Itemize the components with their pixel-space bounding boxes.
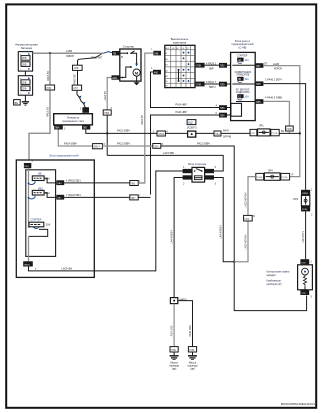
wire PA45 to fuse LR2 bbox=[263, 79, 305, 190]
svg-text:РА63 5ВГ: РА63 5ВГ bbox=[74, 73, 77, 85]
svg-text:J/С(ВУТ): J/С(ВУТ) bbox=[186, 126, 196, 129]
connector on PA24 wire mid bbox=[130, 194, 141, 200]
svg-text:LA5Б: LA5Б bbox=[66, 50, 72, 53]
wire battery feed down to fuse block MB bbox=[29, 53, 50, 162]
fuse/relay block C-4B title bbox=[232, 39, 254, 49]
svg-text:РА1Б 5В: РА1Б 5В bbox=[47, 107, 50, 117]
starter box bbox=[120, 49, 141, 81]
svg-text:ЗУБ: ЗУБ bbox=[22, 88, 27, 91]
ignition switch contact diamonds bbox=[177, 51, 189, 82]
connector PL3 on PA14 bbox=[219, 105, 231, 110]
connector on starter S wire bbox=[103, 107, 112, 115]
wire PA34 fuse MB1 to fuse block bbox=[151, 111, 220, 194]
svg-text:РА24 5ЛВЧ: РА24 5ЛВЧ bbox=[64, 143, 77, 146]
connector on battery feed wire bbox=[45, 85, 54, 90]
alternator bbox=[54, 114, 93, 125]
svg-text:ПЛ4Б: ПЛ4Б bbox=[282, 177, 288, 179]
wire LA26 to diode/fuse LR4 bbox=[263, 63, 299, 177]
svg-text:РА20 5В: РА20 5В bbox=[141, 115, 144, 125]
svg-text:ПЛБ: ПЛБ bbox=[189, 349, 194, 352]
wire joint to left ground (gray) bbox=[170, 304, 174, 347]
svg-text:ПЛ8: ПЛ8 bbox=[256, 84, 261, 86]
svg-text:Комбинация: Комбинация bbox=[266, 279, 281, 282]
lamp bottom connector bbox=[300, 290, 312, 299]
wire PA22 alternator to joint bbox=[86, 130, 157, 134]
svg-text:батарея: батарея bbox=[21, 46, 33, 50]
wire PA20 fuse MB to connector (label) bbox=[64, 179, 130, 183]
connector PV4b on fuse MB output bbox=[56, 180, 64, 185]
fuse MB1 10A bbox=[29, 187, 57, 199]
svg-text:4 РА29 2: 4 РА29 2 bbox=[206, 62, 217, 65]
battery unit 1 bbox=[18, 52, 32, 72]
svg-text:(дв): (дв) bbox=[190, 368, 195, 371]
svg-text:ЛР4: ЛР4 bbox=[268, 170, 273, 173]
svg-text:Контрольная лампа: Контрольная лампа bbox=[266, 271, 290, 274]
svg-text:ЕМ1: ЕМ1 bbox=[113, 78, 118, 80]
ignition switch right tab PL8 bbox=[196, 63, 205, 68]
svg-text:ПБ: ПБ bbox=[113, 54, 117, 56]
svg-text:ЗМ14: ЗМ14 bbox=[94, 146, 101, 149]
fuse LR4 inline bbox=[256, 173, 294, 180]
ground (starter) bbox=[134, 81, 140, 85]
svg-text:Генератор: Генератор bbox=[67, 115, 80, 119]
svg-text:ПЛ2: ПЛ2 bbox=[220, 66, 225, 68]
svg-text:ВБ: ВБ bbox=[15, 102, 19, 105]
fuse STARTER 30A bbox=[29, 218, 51, 261]
connector on PA63 wire lower bbox=[72, 85, 81, 90]
svg-text:КОМБИНАЦИЯ: КОМБИНАЦИЯ bbox=[235, 71, 252, 74]
wire LAOU block to relay bbox=[29, 171, 183, 271]
alternator top tab bbox=[82, 107, 89, 113]
svg-text:Реле стартера: Реле стартера bbox=[188, 162, 207, 166]
svg-text:РА63 5ВГ: РА63 5ВГ bbox=[91, 57, 103, 60]
wire between battery units bbox=[24, 71, 26, 76]
svg-text:ЭЛ. ВЕНТИЛ.: ЭЛ. ВЕНТИЛ. bbox=[236, 89, 251, 91]
starter internal circuit bbox=[120, 51, 140, 81]
svg-text:РАДИАТОРА: РАДИАТОРА bbox=[236, 91, 250, 94]
svg-text:Блок предохранителей: Блок предохранителей bbox=[50, 154, 79, 158]
fuse F2 instrument cluster 10A bbox=[232, 71, 255, 84]
svg-text:МБ: МБ bbox=[38, 173, 42, 176]
svg-text:ПЛ4: ПЛ4 bbox=[220, 116, 225, 118]
node junction lamp loop / relay return bbox=[233, 261, 235, 263]
svg-text:ПЛ1Б: ПЛ1Б bbox=[158, 133, 165, 136]
svg-text:ПЛ7Б: ПЛ7Б bbox=[272, 133, 278, 135]
connector PV1b block feed bbox=[24, 163, 31, 168]
svg-text:ПВ4: ПВ4 bbox=[55, 128, 60, 130]
node junction battery feed bbox=[49, 52, 51, 54]
svg-text:ПЛ9: ПЛ9 bbox=[196, 84, 201, 86]
svg-text:ПЛВ: ПЛВ bbox=[287, 128, 292, 131]
svg-text:МКWАОВSCWЕG41F01: МКWАОВSCWЕG41F01 bbox=[281, 402, 316, 406]
svg-text:ПЛБ: ПЛБ bbox=[46, 87, 51, 90]
joint on PA22 wire bbox=[188, 131, 196, 137]
svg-text:1/5Т: 1/5Т bbox=[73, 87, 78, 90]
ignition switch internal link bbox=[178, 69, 180, 81]
svg-text:LA4 4ЛВОЧ: LA4 4ЛВОЧ bbox=[170, 230, 173, 244]
starter terminal S bbox=[112, 75, 124, 80]
svg-text:зажигания: зажигания bbox=[173, 40, 187, 44]
svg-text:СТАРТЕР: СТАРТЕР bbox=[31, 218, 42, 221]
ignition switch left tab 1 bbox=[151, 48, 161, 55]
fuse block right tab PL8b bbox=[255, 81, 263, 86]
svg-text:ПЛ4Б: ПЛ4Б bbox=[257, 177, 263, 179]
svg-text:РА34 4ВР: РА34 4ВР bbox=[176, 111, 188, 114]
svg-text:ПВ7: ПВ7 bbox=[131, 197, 136, 200]
node junction LR1 output / LA26 bbox=[299, 132, 301, 134]
svg-text:LАОУ ВН: LАОУ ВН bbox=[62, 268, 73, 271]
connector on PA63 wire upper bbox=[73, 65, 83, 70]
svg-text:ПВ1Б: ПВ1Б bbox=[24, 264, 30, 266]
wire PA46 down to LR1 output bbox=[263, 96, 289, 126]
svg-text:8Б: 8Б bbox=[238, 79, 241, 81]
wire joint to right ground bbox=[178, 301, 193, 347]
node E6 label box bbox=[14, 100, 21, 105]
fuse F3 radiator fan 10A bbox=[236, 89, 256, 101]
svg-text:4 РА46 5 24ВВ: 4 РА46 5 24ВВ bbox=[265, 96, 282, 99]
svg-text:7 (РА24 5В/1: 7 (РА24 5В/1 bbox=[66, 194, 81, 197]
lamp label bbox=[266, 271, 290, 286]
relay tab top-left bbox=[183, 169, 192, 173]
svg-text:РА14 4ВР: РА14 4ВР bbox=[176, 104, 188, 107]
battery title bbox=[15, 43, 38, 50]
fuse block right tab PL5 bbox=[255, 99, 263, 104]
svg-text:Стартер: Стартер bbox=[123, 45, 135, 49]
wire PA47 to fuse LR1 bbox=[221, 130, 250, 139]
wire PA21 to connector PL4b bbox=[102, 143, 152, 146]
svg-text:30ВОН: 30ВОН bbox=[66, 55, 74, 58]
wire LA23 LR4 to junction (gray) bbox=[234, 177, 256, 262]
svg-text:ЛР1: ЛР1 bbox=[259, 125, 264, 128]
connector PV7b on fuse MB1 output bbox=[56, 195, 64, 200]
svg-text:5ВР: 5ВР bbox=[209, 67, 214, 70]
svg-text:LA23 4ЛРОЧ: LA23 4ЛРОЧ bbox=[245, 192, 248, 207]
engine bay fuse block outer box bbox=[16, 160, 94, 277]
relay tab bottom-right bbox=[205, 175, 214, 179]
svg-text:РА21 5ЛВЧ: РА21 5ЛВЧ bbox=[117, 143, 130, 146]
svg-text:ПРИБОРОВ: ПРИБОРОВ bbox=[236, 75, 249, 77]
svg-text:РА21 5ЛВЧ: РА21 5ЛВЧ bbox=[197, 143, 210, 146]
svg-text:РА47: РА47 bbox=[223, 130, 230, 133]
ground (left, engine) bbox=[169, 352, 179, 371]
svg-text:ПЛ9: ПЛ9 bbox=[220, 85, 225, 87]
wire relay contact out to lamp circuit bbox=[214, 178, 234, 262]
svg-text:ВО: ВО bbox=[165, 59, 168, 61]
fuse LR2 vertical bbox=[293, 188, 313, 216]
svg-text:ПВ7: ПВ7 bbox=[83, 128, 88, 130]
svg-text:30А: 30А bbox=[46, 224, 51, 227]
ground (right, body) bbox=[188, 352, 198, 371]
engine bay fuse block inner box bbox=[26, 170, 56, 257]
connector PL4 on PA34 bbox=[219, 113, 231, 118]
wire LA8 fuse LR2 to lamp bbox=[302, 211, 306, 259]
wire PA14 switch tab2 to fuse block bbox=[151, 72, 220, 108]
wire LA13 starter S down bbox=[104, 78, 112, 110]
svg-text:ПЛ4: ПЛ4 bbox=[154, 145, 159, 148]
wire PA22 connector to joint box bbox=[165, 132, 187, 134]
lamp top connector bbox=[300, 259, 312, 264]
relay tab bottom-left bbox=[183, 175, 192, 179]
svg-text:ПЛ8: ПЛ8 bbox=[196, 66, 201, 68]
node junction PA22/S bbox=[106, 132, 108, 134]
svg-text:LA13 5В: LA13 5В bbox=[104, 91, 107, 101]
connector on PA21 wire bbox=[93, 143, 106, 149]
ground joint box bbox=[170, 298, 186, 304]
svg-text:44Е: 44Е bbox=[154, 72, 159, 74]
svg-text:ЛОК 1ЛО: ЛОК 1ЛО bbox=[170, 326, 173, 337]
svg-text:LA23 4ЛРОЧ: LA23 4ЛРОЧ bbox=[245, 234, 248, 249]
wire PA63 starter B to alternator bbox=[74, 54, 103, 107]
svg-text:(С-4В): (С-4В) bbox=[239, 45, 247, 49]
fuse/relay block C-4B bbox=[231, 52, 256, 120]
wire PA24 connector to PA34 riser bbox=[138, 196, 150, 198]
svg-text:ПЛ5: ПЛ5 bbox=[256, 102, 261, 104]
svg-text:6 РА31 7: 6 РА31 7 bbox=[206, 81, 217, 84]
svg-text:ВД2: ВД2 bbox=[188, 122, 193, 125]
svg-text:переменного тока: переменного тока bbox=[62, 120, 84, 123]
wire PA21 alternator L-terminal (gray) bbox=[58, 130, 92, 147]
svg-text:РА1Б 5В: РА1Б 5В bbox=[47, 71, 50, 81]
svg-text:зарядки: зарядки bbox=[266, 274, 276, 277]
connector on PA46 wire bbox=[286, 126, 294, 133]
svg-text:ПВБ: ПВБ bbox=[104, 112, 109, 115]
svg-text:4ЛРОЧ: 4ЛРОЧ bbox=[274, 68, 283, 71]
svg-text:10А: 10А bbox=[244, 78, 249, 81]
svg-text:РА41 5ВБ: РА41 5ВБ bbox=[189, 325, 192, 337]
connector PL4 on LA23 wire bbox=[244, 215, 256, 221]
connector on PA20 wire mid bbox=[130, 180, 141, 186]
connector PL9 on PA31 at fuse block bbox=[219, 82, 231, 87]
fuse MB 30A bbox=[29, 173, 57, 185]
wire LA56 battery to starter B bbox=[33, 50, 113, 58]
relay pin numbers bbox=[183, 166, 217, 185]
connector on PA47 bbox=[214, 131, 221, 136]
ignition switch grid box bbox=[165, 45, 195, 87]
fuse block internal bus bbox=[28, 168, 30, 228]
svg-text:РА22 5ЛВЧ: РА22 5ЛВЧ bbox=[117, 130, 130, 133]
fuse LR1 inline bbox=[250, 129, 300, 136]
battery unit 2 bbox=[18, 76, 32, 96]
wire relay coil to ground joint bbox=[174, 178, 183, 298]
ignition switch left tab 2 bbox=[151, 67, 161, 74]
wire PA29 switch to fuse block bbox=[205, 62, 219, 70]
svg-text:4ОВ: 4ОВ bbox=[74, 67, 79, 70]
svg-text:ПЛ3: ПЛ3 bbox=[220, 108, 225, 110]
svg-text:LA8 4ЛРЧ: LA8 4ЛРЧ bbox=[302, 231, 305, 243]
fuse block right tab PL7 bbox=[255, 63, 268, 68]
svg-text:-ЛР2: -ЛР2 bbox=[293, 198, 299, 201]
wire PA31 switch to fuse block bbox=[205, 81, 219, 89]
svg-text:ПЛБ: ПЛБ bbox=[171, 349, 176, 352]
svg-text:4 (РА20 5В/1: 4 (РА20 5В/1 bbox=[66, 179, 81, 182]
wire PA21 continuation to lamp return loop bbox=[161, 143, 307, 311]
svg-text:24Е: 24Е bbox=[154, 53, 159, 55]
fuse F1 STARTER 10A bbox=[232, 54, 255, 65]
joint label box EV2 bbox=[186, 120, 196, 130]
wire LA15 to starter relay bbox=[107, 152, 223, 171]
ignition switch right tab PL9 bbox=[196, 82, 205, 87]
starter relay internals bbox=[194, 169, 203, 180]
inner box inside C-4B bbox=[231, 103, 242, 116]
relay tab top-right bbox=[205, 169, 214, 173]
connector at left ground bbox=[170, 347, 178, 352]
ground (battery) bbox=[22, 102, 29, 105]
svg-text:ПВ1: ПВ1 bbox=[131, 183, 136, 186]
connector PL2 on PA29 at fuse block bbox=[219, 63, 231, 68]
battery negative wire bbox=[24, 95, 26, 101]
connector PV1b block bottom bbox=[23, 261, 37, 271]
svg-text:(дв): (дв) bbox=[172, 368, 177, 371]
connector at right ground bbox=[188, 347, 196, 352]
starter terminal B bbox=[112, 51, 123, 59]
svg-text:LA15 5ВЧ: LA15 5ВЧ bbox=[163, 152, 174, 155]
charge warning lamp (instrument cluster) bbox=[298, 265, 313, 290]
svg-text:10А: 10А bbox=[244, 96, 249, 99]
wire starter S to junction and LA15 bbox=[106, 115, 108, 155]
svg-text:СТАРТЕР: СТАРТЕР bbox=[237, 54, 248, 57]
svg-text:ЗУБ: ЗУБ bbox=[22, 57, 27, 60]
alternator bottom-right tab bbox=[82, 125, 90, 130]
svg-text:5ЛРЧБ: 5ЛРЧБ bbox=[223, 136, 231, 139]
wire PA47 joint to connector bbox=[196, 132, 214, 134]
wire PA24 fuse MB1 to connector bbox=[64, 194, 130, 198]
connector PL4b on PA21 bbox=[153, 143, 164, 148]
svg-text:LA2Б: LA2Б bbox=[273, 63, 279, 66]
svg-text:10А: 10А bbox=[244, 59, 249, 62]
svg-text:ПЛ7: ПЛ7 bbox=[256, 66, 261, 68]
svg-text:ЗУБ: ЗУБ bbox=[22, 81, 27, 84]
svg-text:ПВ4: ПВ4 bbox=[215, 133, 220, 136]
svg-text:5ВРЧ: 5ВРЧ bbox=[209, 86, 216, 89]
svg-text:4А: 4А bbox=[238, 59, 241, 62]
starter relay box bbox=[192, 167, 205, 182]
wire PA20 fuse MB to switch tab1 (gray) bbox=[138, 53, 153, 183]
svg-text:LA9 4ЛВОЧ: LA9 4ЛВОЧ bbox=[220, 225, 223, 239]
svg-text:1 РА45 2 5ВГЧ: 1 РА45 2 5ВГЧ bbox=[265, 79, 282, 82]
ignition switch title bbox=[171, 37, 189, 44]
svg-text:приборов (Р): приборов (Р) bbox=[266, 283, 281, 286]
alternator bottom-left tab bbox=[54, 125, 66, 131]
svg-text:5Г9Б: 5Г9Б bbox=[302, 209, 308, 211]
svg-text:ЗУБ: ЗУБ bbox=[22, 63, 27, 66]
connector PL1b on PA22 bbox=[153, 131, 169, 136]
svg-text:ПЛ4: ПЛ4 bbox=[245, 218, 250, 221]
